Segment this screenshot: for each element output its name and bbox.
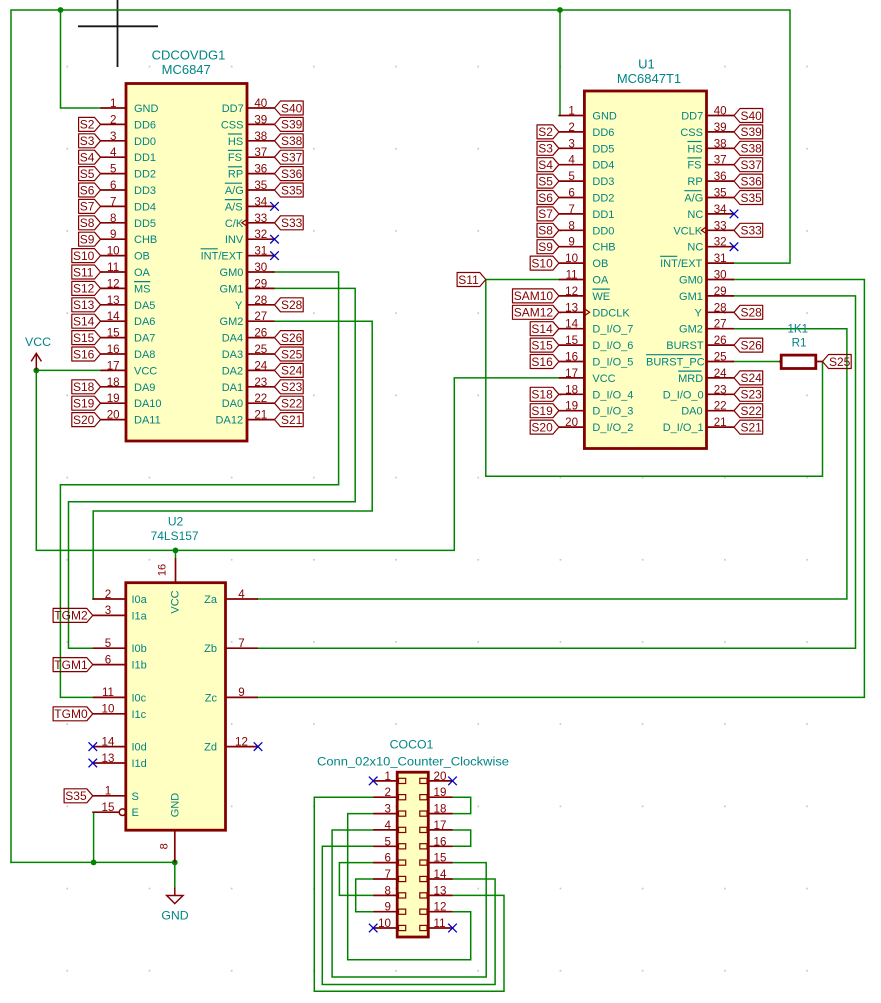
IC U1 pin 17 VCC [559, 367, 616, 385]
IC U1 pin 2 DD6 [559, 121, 615, 139]
IC U1 pin 12 WE [559, 285, 610, 303]
svg-text:9: 9 [110, 228, 116, 241]
svg-text:Y: Y [694, 307, 702, 319]
svg-text:DD6: DD6 [134, 119, 156, 131]
svg-text:19: 19 [107, 392, 120, 405]
svg-text:30: 30 [254, 261, 267, 274]
svg-text:MC6847: MC6847 [162, 62, 211, 77]
svg-text:S18: S18 [531, 388, 553, 402]
svg-text:SAM10: SAM10 [514, 289, 554, 303]
svg-text:13: 13 [434, 884, 447, 897]
svg-text:S22: S22 [741, 404, 763, 418]
IC U1 pin 9 CHB [559, 236, 616, 254]
IC U1 pin 30 GM0 [679, 269, 734, 287]
svg-text:S: S [132, 791, 139, 803]
IC CDCOVDG1 pin 39 CSS [221, 113, 275, 131]
svg-text:3: 3 [110, 130, 116, 143]
label S26 (U1) [734, 338, 763, 352]
svg-text:28: 28 [254, 294, 267, 307]
label S36 [275, 167, 304, 181]
label S7 (U1) [537, 207, 559, 221]
svg-text:14: 14 [107, 310, 120, 323]
svg-text:38: 38 [254, 130, 267, 143]
svg-text:BURST_PC: BURST_PC [646, 357, 705, 369]
svg-text:4: 4 [568, 154, 575, 167]
label SAM12 [513, 305, 559, 319]
svg-text:S23: S23 [281, 380, 303, 394]
svg-text:DD1: DD1 [592, 209, 614, 221]
label S39 (U1) [734, 125, 763, 139]
svg-text:DA12: DA12 [216, 415, 244, 427]
svg-text:WE: WE [592, 291, 610, 303]
IC CDCOVDG1 pin 22 DA0 [222, 392, 275, 410]
label S14 (U1) [530, 322, 559, 336]
svg-text:Conn_02x10_Counter_Clockwise: Conn_02x10_Counter_Clockwise [317, 757, 509, 769]
IC CDCOVDG1 pin 36 RP [228, 163, 275, 181]
svg-text:S23: S23 [741, 388, 763, 402]
svg-text:DD0: DD0 [134, 136, 156, 148]
wire GND to CDCOVDG1 pin1 [61, 10, 101, 108]
svg-text:S6: S6 [80, 183, 95, 197]
svg-text:8: 8 [568, 219, 574, 232]
svg-text:DD5: DD5 [134, 218, 156, 230]
IC U1 pin 38 HS [687, 137, 734, 155]
svg-text:3: 3 [568, 137, 574, 150]
label S21 (U1) [734, 420, 763, 434]
label S25 [275, 347, 304, 361]
svg-text:D_I/O_4: D_I/O_4 [592, 389, 633, 401]
IC U1 pin 11 OA [559, 269, 609, 287]
svg-text:2: 2 [568, 121, 574, 134]
IC CDCOVDG1 pin 25 DA3 [222, 343, 275, 361]
svg-text:D_I/O_0: D_I/O_0 [663, 389, 704, 401]
svg-text:11: 11 [107, 261, 119, 274]
svg-text:GND: GND [170, 793, 182, 818]
svg-text:1: 1 [105, 785, 111, 798]
label S25 (R1) [823, 355, 852, 369]
svg-text:Zc: Zc [205, 692, 218, 704]
IC U2 pin 7 Zb [204, 637, 258, 655]
IC CDCOVDG1 pin 24 DA2 [222, 359, 275, 377]
svg-text:16: 16 [157, 564, 169, 576]
power symbol VCC [25, 335, 51, 371]
svg-text:S14: S14 [73, 315, 95, 329]
IC U2 pin 4 Za [204, 588, 258, 606]
connector COCO1 pin 15 [420, 852, 453, 866]
svg-text:VCC: VCC [592, 373, 615, 385]
IC CDCOVDG1 pin 13 DA5 [101, 294, 156, 312]
wire VCC to CDCOVDG1 pin17 [36, 369, 100, 371]
svg-text:S28: S28 [741, 306, 763, 320]
svg-text:A/G: A/G [684, 193, 703, 205]
svg-text:S3: S3 [80, 134, 95, 148]
wire GND bottom rail [11, 861, 175, 863]
IC U1 pin 34 NC [687, 203, 734, 221]
wire COCO1 pin5 to pin14 [322, 846, 495, 984]
label S35 (U1) [734, 191, 763, 205]
label S16 (U1) [530, 355, 559, 369]
svg-text:S19: S19 [73, 397, 95, 411]
svg-text:14: 14 [434, 868, 447, 881]
no-connect CDCOVDG1 pin32 [270, 235, 279, 244]
connector COCO1 pin 13 [420, 884, 453, 898]
svg-text:DD4: DD4 [592, 160, 614, 172]
svg-text:10: 10 [565, 252, 578, 265]
svg-text:S4: S4 [80, 151, 95, 165]
IC U2 pin 10 I1c [93, 703, 147, 721]
svg-text:DD7: DD7 [222, 103, 244, 115]
label S16 [72, 347, 101, 361]
IC CDCOVDG1 pin 17 VCC [101, 359, 158, 377]
IC CDCOVDG1 pin 7 DD4 [101, 195, 157, 213]
IC U1 pin 6 DD2 [559, 187, 615, 205]
svg-text:2: 2 [385, 786, 391, 799]
wire U2 Za to U1 GM2 [258, 329, 847, 599]
IC U1 pin 7 DD1 [559, 203, 615, 221]
svg-text:S33: S33 [741, 224, 763, 238]
IC CDCOVDG1 pin 32 INV [225, 228, 275, 246]
svg-text:VCC: VCC [170, 590, 182, 613]
IC CDCOVDG1 pin 29 GM1 [220, 277, 275, 295]
junction GND rail / U2 pin15 [91, 860, 97, 866]
label S36 (U1) [734, 174, 763, 188]
svg-text:9: 9 [568, 236, 574, 249]
label S24 [275, 363, 304, 377]
label S18 (U1) [530, 387, 559, 401]
svg-text:26: 26 [714, 334, 727, 347]
IC U1 pin 28 Y [694, 301, 734, 319]
svg-text:DD2: DD2 [592, 193, 614, 205]
IC CDCOVDG1 pin 35 A/G [225, 179, 275, 197]
svg-text:18: 18 [434, 803, 447, 816]
IC CDCOVDG1 pin 21 DA12 [216, 409, 275, 427]
svg-text:11: 11 [566, 269, 578, 282]
no-connect COCO1 pin1 [369, 777, 378, 786]
label SAM10 [513, 289, 559, 303]
resistor R1 [779, 355, 823, 368]
label S22 (U1) [734, 404, 763, 418]
svg-text:12: 12 [565, 285, 578, 298]
svg-text:CDCOVDG1: CDCOVDG1 [152, 48, 226, 63]
svg-text:GND: GND [592, 111, 617, 123]
IC CDCOVDG1 pin 38 HS [228, 130, 275, 148]
svg-text:S10: S10 [531, 256, 553, 270]
svg-text:CHB: CHB [134, 234, 157, 246]
IC U1 pin 39 CSS [680, 121, 734, 139]
svg-text:S11: S11 [73, 265, 94, 279]
svg-text:DA11: DA11 [134, 415, 161, 427]
IC U2 pin 6 I1b [93, 653, 147, 671]
svg-text:22: 22 [254, 392, 267, 405]
no-connect U1 pin32 [730, 242, 739, 251]
connector COCO1 pin 1 [373, 770, 406, 784]
svg-text:S22: S22 [281, 397, 303, 411]
svg-text:S20: S20 [531, 420, 553, 434]
svg-text:S5: S5 [80, 167, 95, 181]
svg-text:CSS: CSS [221, 119, 244, 131]
svg-text:9: 9 [385, 901, 391, 914]
svg-text:DA10: DA10 [134, 398, 162, 410]
svg-text:FS: FS [687, 160, 701, 172]
svg-text:I1d: I1d [132, 758, 147, 770]
IC U2 body [126, 583, 226, 831]
IC U1 pin 33 VCLK [673, 219, 734, 237]
svg-text:10: 10 [102, 703, 115, 716]
svg-text:S9: S9 [538, 240, 553, 254]
svg-text:BURST: BURST [666, 340, 704, 352]
IC CDCOVDG1 pin 3 DD0 [101, 130, 157, 148]
IC U2 pin 5 I0b [93, 637, 147, 655]
svg-text:VCLK: VCLK [673, 225, 702, 237]
svg-text:4: 4 [385, 819, 392, 832]
label S21 [275, 413, 304, 427]
svg-text:DA5: DA5 [134, 300, 155, 312]
IC CDCOVDG1 pin 9 CHB [101, 228, 158, 246]
svg-text:7: 7 [568, 203, 574, 216]
svg-text:COCO1: COCO1 [390, 738, 434, 752]
svg-text:S39: S39 [281, 118, 303, 132]
label S22 [275, 396, 304, 410]
svg-text:19: 19 [565, 400, 578, 413]
IC U1 pin 18 D_I/O_4 [559, 383, 633, 401]
svg-text:DD5: DD5 [592, 143, 614, 155]
svg-text:S8: S8 [80, 216, 95, 230]
svg-text:DD3: DD3 [134, 185, 156, 197]
svg-text:16: 16 [565, 351, 578, 364]
svg-text:18: 18 [107, 376, 120, 389]
svg-text:6: 6 [105, 653, 111, 666]
IC U1 pin 10 OB [559, 252, 608, 270]
svg-text:33: 33 [254, 212, 267, 225]
connector COCO1 pin 2 [373, 786, 406, 800]
label S19 (U1) [530, 404, 559, 418]
wire GND top rail [11, 10, 790, 862]
label S8 (U1) [537, 223, 559, 237]
svg-text:29: 29 [254, 277, 267, 290]
svg-text:4: 4 [238, 588, 245, 601]
svg-text:HS: HS [228, 136, 243, 148]
svg-text:D_I/O_6: D_I/O_6 [592, 340, 633, 352]
svg-text:DA3: DA3 [222, 349, 243, 361]
svg-text:3: 3 [385, 803, 391, 816]
svg-text:36: 36 [254, 163, 267, 176]
label S6 (U1) [537, 191, 559, 205]
IC CDCOVDG1 pin 33 C/K [225, 212, 275, 230]
svg-text:Zb: Zb [204, 643, 217, 655]
IC U1 pin 31 INT/EXT [660, 252, 734, 270]
IC U1 pin 14 D_I/O_7 [559, 318, 633, 336]
IC CDCOVDG1 pin 6 DD3 [101, 179, 157, 197]
no-connect U2 pin14 [89, 742, 98, 751]
svg-text:1: 1 [568, 105, 574, 118]
svg-text:DD2: DD2 [134, 169, 156, 181]
svg-text:Zd: Zd [204, 742, 217, 754]
svg-text:S8: S8 [538, 224, 553, 238]
IC CDCOVDG1 pin 15 DA7 [101, 327, 156, 345]
wire CDCOVDG1 GM2 to U2 I0a [93, 321, 372, 599]
svg-text:OB: OB [592, 258, 608, 270]
svg-text:S14: S14 [531, 322, 553, 336]
svg-text:32: 32 [714, 236, 727, 249]
IC U1 pin 3 DD5 [559, 137, 615, 155]
wire U2 pin15 E to GND rail [92, 812, 95, 862]
svg-text:A/G: A/G [225, 185, 244, 197]
svg-text:33: 33 [714, 219, 727, 232]
svg-text:38: 38 [714, 137, 727, 150]
IC CDCOVDG1 pin 34 A/S [225, 195, 275, 213]
label S9 (U1) [537, 240, 559, 254]
wire VCC to U2 pin16 [175, 550, 177, 558]
svg-text:17: 17 [107, 359, 120, 372]
IC U1 pin 32 NC [687, 236, 734, 254]
svg-text:13: 13 [102, 752, 115, 765]
junction VCC rail / U2 pin16 [173, 548, 179, 554]
wire COCO1 pin19 to pin18 [453, 797, 471, 813]
svg-text:S24: S24 [741, 371, 763, 385]
svg-text:I0b: I0b [132, 643, 147, 655]
IC CDCOVDG1 pin 40 DD7 [222, 97, 275, 115]
IC U1 pin 36 RP [687, 170, 734, 188]
svg-text:37: 37 [714, 154, 727, 167]
IC U1 pin 5 DD3 [559, 170, 615, 188]
label S11 [72, 265, 101, 279]
svg-text:D_I/O_5: D_I/O_5 [592, 357, 633, 369]
svg-text:12: 12 [434, 901, 447, 914]
IC CDCOVDG1 pin 14 DA6 [101, 310, 156, 328]
IC CDCOVDG1 pin 18 DA9 [101, 376, 156, 394]
junction GND rail / CDCOVDG1 pin1 [58, 7, 64, 13]
svg-text:R1: R1 [792, 337, 807, 350]
svg-text:D_I/O_3: D_I/O_3 [592, 406, 633, 418]
label S10 (U1) [530, 256, 559, 270]
svg-text:MC6847T1: MC6847T1 [617, 71, 681, 86]
label S35 (U2) [64, 789, 93, 803]
svg-text:DD3: DD3 [592, 176, 614, 188]
label S3 [79, 134, 101, 148]
label S18 [72, 380, 101, 394]
svg-text:VCC: VCC [134, 365, 157, 377]
connector COCO1 pin 9 [373, 901, 406, 915]
IC CDCOVDG1 pin 2 DD6 [101, 113, 157, 131]
svg-text:14: 14 [102, 735, 115, 748]
svg-text:GM1: GM1 [220, 283, 244, 295]
svg-text:S18: S18 [73, 380, 95, 394]
junction GND rail / U1 pin1 [557, 7, 563, 13]
svg-text:21: 21 [714, 416, 727, 429]
label S40 (U1) [734, 109, 763, 123]
svg-text:S7: S7 [538, 207, 553, 221]
IC CDCOVDG1 pin 23 DA1 [222, 376, 275, 394]
svg-text:S35: S35 [65, 789, 87, 803]
label S20 [72, 413, 101, 427]
svg-text:CHB: CHB [592, 242, 615, 254]
svg-text:31: 31 [714, 252, 727, 265]
svg-text:2: 2 [105, 588, 111, 601]
IC CDCOVDG1 pin 28 Y [235, 294, 275, 312]
IC U2 pin 16 VCC [157, 558, 182, 613]
label TGM2 [53, 608, 93, 622]
svg-text:13: 13 [107, 294, 120, 307]
svg-text:28: 28 [714, 301, 727, 314]
label S7 [79, 199, 101, 213]
svg-text:S2: S2 [538, 125, 553, 139]
svg-text:HS: HS [687, 143, 702, 155]
svg-text:C/K: C/K [225, 218, 244, 230]
svg-text:S24: S24 [281, 364, 303, 378]
svg-text:GND: GND [134, 103, 159, 115]
label S19 [72, 396, 101, 410]
label S26 [275, 331, 304, 345]
svg-text:I1b: I1b [132, 660, 147, 672]
svg-text:1: 1 [110, 97, 116, 110]
svg-text:S35: S35 [741, 191, 763, 205]
svg-text:S11: S11 [458, 273, 479, 287]
svg-text:I0a: I0a [132, 594, 148, 606]
label S2 (U1) [537, 125, 559, 139]
svg-text:25: 25 [714, 351, 727, 364]
IC U1 pin 1 GND [559, 105, 617, 123]
svg-text:U1: U1 [638, 56, 655, 71]
svg-text:27: 27 [714, 318, 727, 331]
svg-text:6: 6 [385, 852, 391, 865]
svg-text:INT/EXT: INT/EXT [201, 251, 243, 263]
wire U2 Zc to U1 GM0 [258, 280, 864, 698]
svg-text:DDCLK: DDCLK [592, 307, 630, 319]
no-connect U2 pin12 [254, 742, 263, 751]
svg-text:SAM12: SAM12 [514, 306, 554, 320]
svg-text:RP: RP [687, 176, 702, 188]
svg-text:NC: NC [687, 209, 703, 221]
svg-text:S26: S26 [741, 338, 763, 352]
wire S11 to U1 pin11 [486, 279, 559, 281]
connector COCO1 body [397, 772, 428, 937]
connector COCO1 pin 16 [420, 835, 453, 849]
svg-text:40: 40 [714, 105, 727, 118]
IC U2 pin 15 E [93, 801, 139, 819]
svg-text:5: 5 [385, 835, 391, 848]
IC CDCOVDG1 pin 10 OB [101, 245, 150, 263]
label S5 (U1) [537, 174, 559, 188]
no-connect COCO1 pin10 [369, 924, 378, 933]
IC U2 pin 13 I1d [93, 752, 147, 770]
no-connect CDCOVDG1 pin34 [270, 202, 279, 211]
svg-text:TGM0: TGM0 [54, 707, 88, 721]
svg-text:S13: S13 [73, 298, 95, 312]
IC U1 pin 4 DD4 [559, 154, 615, 172]
svg-text:20: 20 [434, 770, 447, 783]
svg-text:20: 20 [565, 416, 578, 429]
svg-text:12: 12 [235, 735, 248, 748]
wire COCO1 pin3 to pin12 [348, 814, 471, 960]
wire U1 pin25 to R1 [732, 361, 779, 363]
svg-text:23: 23 [714, 383, 727, 396]
IC U2 pin 14 I0d [93, 735, 147, 753]
IC U1 pin 16 D_I/O_5 [559, 351, 633, 369]
svg-text:DA6: DA6 [134, 316, 155, 328]
IC U1 body [584, 91, 706, 449]
svg-text:15: 15 [565, 334, 578, 347]
svg-text:S37: S37 [281, 151, 303, 165]
svg-text:35: 35 [714, 187, 727, 200]
svg-text:GM2: GM2 [220, 316, 244, 328]
IC U2 pin 9 Zc [205, 686, 258, 704]
IC U1 pin 19 D_I/O_3 [559, 400, 633, 418]
svg-text:13: 13 [565, 301, 578, 314]
svg-text:Y: Y [235, 300, 243, 312]
svg-text:7: 7 [238, 637, 244, 650]
svg-text:10: 10 [378, 917, 391, 930]
svg-text:TGM1: TGM1 [54, 658, 88, 672]
